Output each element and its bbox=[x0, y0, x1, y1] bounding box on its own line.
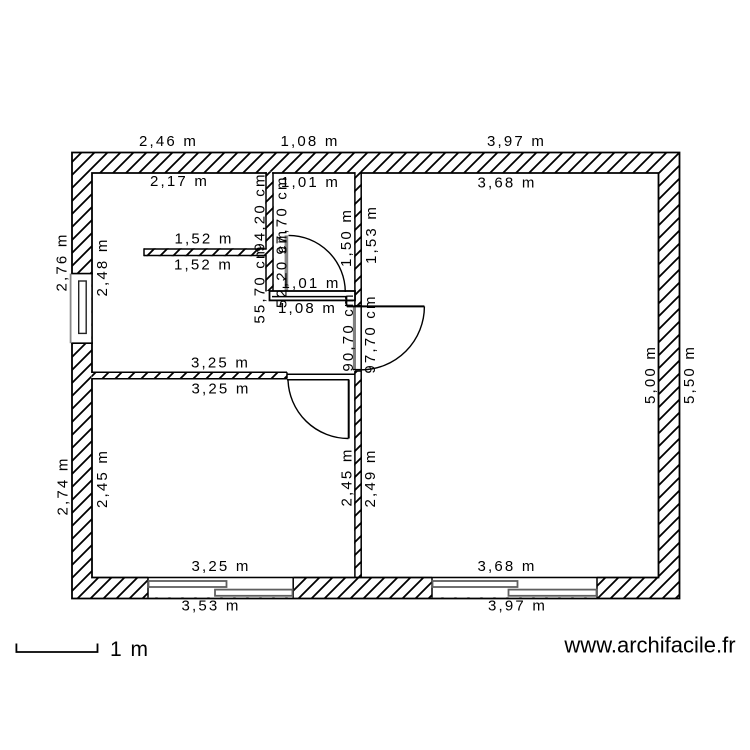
svg-text:2,76 m: 2,76 m bbox=[54, 232, 71, 291]
svg-text:3,25 m: 3,25 m bbox=[191, 558, 250, 575]
svg-text:3,97 m: 3,97 m bbox=[487, 133, 546, 150]
door D2 arc bbox=[361, 306, 424, 369]
svg-text:52,20 cm: 52,20 cm bbox=[274, 229, 291, 308]
svg-text:1,50 m: 1,50 m bbox=[338, 208, 355, 267]
door D3 frame lines bbox=[287, 374, 355, 380]
svg-text:1,52 m: 1,52 m bbox=[174, 257, 233, 274]
window W3 opening (bottom wall right, sliding) bbox=[432, 577, 597, 598]
svg-text:1 m: 1 m bbox=[110, 638, 150, 661]
door D1 arc bbox=[289, 235, 346, 292]
svg-text:1,52 m: 1,52 m bbox=[174, 231, 233, 248]
svg-text:97,70 cm: 97,70 cm bbox=[362, 294, 379, 373]
door D2 right jamb line bbox=[360, 306, 362, 371]
svg-text:3,68 m: 3,68 m bbox=[477, 558, 536, 575]
svg-text:1,08 m: 1,08 m bbox=[280, 133, 339, 150]
svg-text:2,48 m: 2,48 m bbox=[94, 237, 111, 296]
door D1 frame (small room bottom) bbox=[270, 291, 356, 306]
svg-text:3,97 m: 3,97 m bbox=[488, 598, 547, 615]
svg-text:55,70 cm: 55,70 cm bbox=[252, 244, 269, 323]
svg-text:3,68 m: 3,68 m bbox=[477, 175, 536, 192]
svg-text:2,49 m: 2,49 m bbox=[362, 448, 379, 507]
svg-text:94,20 cm: 94,20 cm bbox=[252, 172, 269, 251]
svg-text:5,00 m: 5,00 m bbox=[642, 345, 659, 404]
scale bar bbox=[16, 644, 97, 653]
door D1 (small room) gray leaf bbox=[285, 235, 289, 298]
door D2 leaf bbox=[347, 305, 425, 307]
svg-text:2,46 m: 2,46 m bbox=[139, 133, 198, 150]
window W1 opening (left wall) bbox=[70, 274, 93, 344]
svg-text:5,50 m: 5,50 m bbox=[681, 345, 698, 404]
door D3 arc bbox=[288, 380, 349, 439]
interior stub wall (1,52 m) bbox=[144, 248, 266, 256]
svg-text:2,74 m: 2,74 m bbox=[55, 456, 72, 515]
svg-text:2,17 m: 2,17 m bbox=[150, 173, 209, 190]
svg-text:www.archifacile.fr: www.archifacile.fr bbox=[563, 633, 735, 658]
svg-text:2,45 m: 2,45 m bbox=[339, 447, 356, 506]
small room left wall bbox=[267, 172, 272, 175]
svg-text:90,70 cm: 90,70 cm bbox=[340, 292, 357, 371]
horizontal wall (left rooms divider) bbox=[91, 373, 93, 378]
door D3 leaf bbox=[348, 380, 350, 439]
window W2 opening (bottom wall left, sliding) bbox=[148, 577, 293, 598]
central wall lower segment bbox=[354, 371, 362, 578]
svg-text:3,53 m: 3,53 m bbox=[181, 598, 240, 615]
door D2 (central wall) gray closed leaf bbox=[353, 307, 356, 369]
central wall upper segment (right wall of small room) bbox=[356, 172, 361, 175]
outer wall ring (hatched) bbox=[72, 153, 680, 599]
svg-text:3,25 m: 3,25 m bbox=[191, 355, 250, 372]
svg-text:1,53 m: 1,53 m bbox=[363, 205, 380, 264]
svg-text:2,45 m: 2,45 m bbox=[94, 449, 111, 508]
svg-text:3,25 m: 3,25 m bbox=[191, 381, 250, 398]
